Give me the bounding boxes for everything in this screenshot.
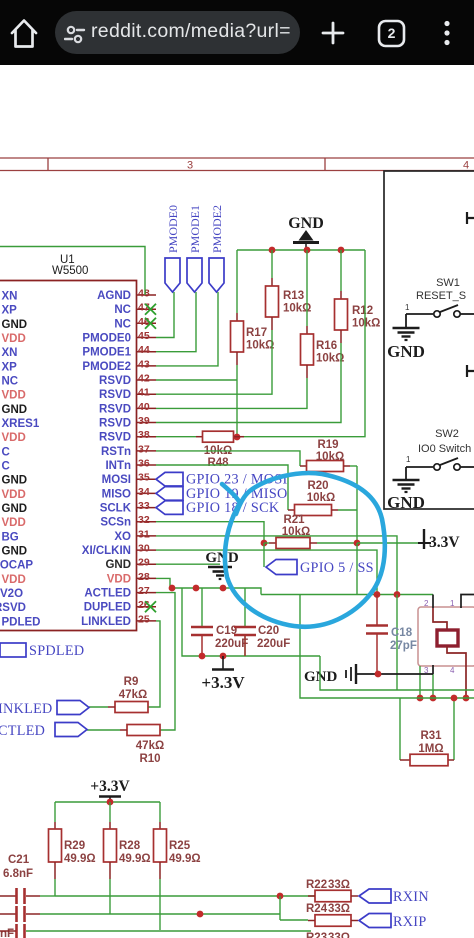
svg-text:36: 36 <box>138 458 150 470</box>
svg-text:C19: C19 <box>216 625 237 637</box>
resistor R16 10kΩ <box>301 334 345 365</box>
wire pin27 ACTLED <box>156 593 175 730</box>
switch area box <box>384 171 474 509</box>
resistor R28 49.9Ohm <box>104 829 151 865</box>
+3.3V power mid <box>201 656 245 692</box>
svg-text:39: 39 <box>138 415 150 427</box>
junction wire jog <box>169 585 176 592</box>
ground SW2 <box>387 467 425 512</box>
wire crystal feed <box>261 594 433 596</box>
wire pin37 RSTn to R19 <box>156 451 300 466</box>
svg-text:RXIP: RXIP <box>393 914 427 930</box>
pin 26 DUPLED <box>84 599 156 614</box>
pin 38 RSVD <box>99 429 156 444</box>
pin 41 RSVD <box>99 387 156 402</box>
port box SPDLED <box>0 643 84 659</box>
svg-text:GND: GND <box>205 550 239 566</box>
wire RXIN rail <box>55 895 315 897</box>
wire R29 top <box>54 802 56 822</box>
svg-text:NC: NC <box>114 304 131 316</box>
svg-text:R16: R16 <box>316 340 337 352</box>
pin 48 AGND <box>97 288 156 303</box>
capacitor C21 6.8nF <box>0 854 55 904</box>
pin 33 SCLK <box>100 500 156 514</box>
svg-text:PMODE0: PMODE0 <box>166 205 180 253</box>
junction C18/ground <box>375 671 382 678</box>
wire rail 698 <box>300 656 474 698</box>
svg-text:RSTn: RSTn <box>101 446 131 458</box>
svg-text:RSVD: RSVD <box>0 602 26 614</box>
wire R25 top <box>159 802 161 822</box>
svg-text:48: 48 <box>138 288 150 300</box>
svg-text:PMODE0: PMODE0 <box>82 333 131 345</box>
svg-text:MISO: MISO <box>102 488 131 500</box>
junction RXIN rail <box>277 893 284 900</box>
svg-text:33Ω: 33Ω <box>328 879 350 891</box>
wire R28 bottom <box>109 862 111 879</box>
svg-text:1: 1 <box>406 455 411 464</box>
svg-text:10kΩ: 10kΩ <box>316 451 344 463</box>
svg-text:1: 1 <box>450 599 455 608</box>
svg-text:RESET_S: RESET_S <box>416 290 466 302</box>
svg-text:3.3V: 3.3V <box>429 534 460 551</box>
resistor R13 10kΩ <box>266 286 312 317</box>
wire pin28 VDD to caps <box>156 578 320 656</box>
svg-text:XP: XP <box>2 305 18 317</box>
svg-text:RSVD: RSVD <box>99 389 131 401</box>
capacitor C22 6.8nF <box>0 906 110 922</box>
svg-text:43: 43 <box>138 358 150 370</box>
wire pin32 SCSn <box>156 522 264 543</box>
resistor R29 49.9Ohm <box>49 829 96 865</box>
svg-text:44: 44 <box>138 344 150 356</box>
svg-text:29: 29 <box>138 557 150 569</box>
svg-text:V2O: V2O <box>0 588 23 600</box>
port arrow LINKLED <box>57 701 89 715</box>
svg-text:31: 31 <box>138 528 150 540</box>
pin 25 LINKLED <box>81 613 156 628</box>
svg-text:220uF: 220uF <box>215 638 248 650</box>
junction bus-R12 <box>338 247 345 254</box>
wire R20 right <box>332 509 339 511</box>
svg-text:MOSI: MOSI <box>102 474 131 486</box>
svg-text:27: 27 <box>138 585 150 597</box>
site controls icon <box>68 27 74 33</box>
pin 28 VDD <box>107 571 156 586</box>
pin 31 XO <box>114 528 156 543</box>
junction XO <box>394 591 401 598</box>
wire RXIP rail <box>110 913 280 915</box>
svg-text:XN: XN <box>2 291 18 303</box>
resistor R19 10kOhm <box>307 439 345 472</box>
svg-text:RSVD: RSVD <box>99 432 131 444</box>
capacitor C18 27pF <box>366 595 417 675</box>
resistor R48 10kOhm <box>156 431 244 469</box>
svg-text:VDD: VDD <box>2 574 26 586</box>
svg-text:SCLK: SCLK <box>100 503 132 515</box>
svg-text:10kΩ: 10kΩ <box>307 492 335 504</box>
svg-text:R48: R48 <box>207 457 229 469</box>
pin 36 INTn <box>105 458 156 473</box>
svg-text:W5500: W5500 <box>52 265 88 277</box>
svg-text:R9: R9 <box>124 676 139 688</box>
junction rail/+3.3V <box>354 540 361 547</box>
wire R25 bottom <box>159 862 161 879</box>
pin 35 MOSI <box>102 472 156 487</box>
sheet border <box>0 158 474 172</box>
resistor R9 47kOhm <box>89 676 148 713</box>
svg-text:R10: R10 <box>139 753 160 765</box>
svg-text:XRES1: XRES1 <box>2 418 40 430</box>
no-connect X pin 47 <box>145 304 156 315</box>
wire pullup rail vertical <box>356 466 358 543</box>
svg-text:47kΩ: 47kΩ <box>119 689 147 701</box>
svg-text:R24: R24 <box>306 903 328 915</box>
svg-text:GND: GND <box>2 503 28 515</box>
junction 3.3V rail <box>107 799 114 806</box>
wire crystal pin4 down <box>465 665 467 698</box>
wire AGND rail to pin 48 <box>0 247 145 296</box>
home icon <box>12 21 36 47</box>
wire R19 right <box>344 465 351 467</box>
crystal Y1 <box>424 595 466 676</box>
svg-text:LINKLED: LINKLED <box>81 616 131 628</box>
svg-text:SCSn: SCSn <box>100 517 131 529</box>
svg-text:VDD: VDD <box>2 489 26 501</box>
svg-text:GND: GND <box>2 475 28 487</box>
wire R29 bottom <box>54 862 56 879</box>
wire bus to R13 <box>271 250 273 278</box>
svg-text:RXIN: RXIN <box>393 889 429 905</box>
svg-text:25: 25 <box>138 613 150 625</box>
svg-text:VDD: VDD <box>2 517 26 529</box>
svg-text:37: 37 <box>138 443 150 455</box>
svg-text:49.9Ω: 49.9Ω <box>119 853 151 865</box>
wire bus right leg to pin38 row <box>233 250 365 437</box>
junction R17/pin38 wire <box>234 434 241 441</box>
port arrow RXIN <box>359 889 391 903</box>
wire gnd rail 690 <box>320 656 474 690</box>
svg-text:RSVD: RSVD <box>99 418 131 430</box>
junction bus-R16 <box>304 247 311 254</box>
svg-text:R25: R25 <box>169 840 191 852</box>
resistor R12 10kΩ <box>335 299 381 330</box>
svg-text:R17: R17 <box>246 327 267 339</box>
pin 30 XI/CLKIN <box>82 543 156 558</box>
svg-text:1: 1 <box>405 303 410 312</box>
svg-text:GND: GND <box>288 215 324 232</box>
svg-text:SW2: SW2 <box>435 428 459 440</box>
svg-text:33: 33 <box>138 500 150 512</box>
junction bus-R13 <box>269 247 276 254</box>
svg-text:R23: R23 <box>306 932 327 938</box>
pin 42 RSVD <box>99 373 156 388</box>
svg-text:49.9Ω: 49.9Ω <box>64 853 96 865</box>
wire pin30 XI/CLKIN <box>156 550 377 594</box>
no-connect X pin 26 <box>145 601 156 612</box>
svg-text:C20: C20 <box>258 625 279 637</box>
svg-text:42: 42 <box>138 373 150 385</box>
pin 32 SCSn <box>100 514 156 529</box>
wire rail down <box>356 543 358 595</box>
capacitor C20 220uF <box>234 625 290 656</box>
ground sideways GND <box>304 664 433 685</box>
junction case/rail <box>430 695 437 702</box>
junction XI/C18 <box>374 591 381 598</box>
svg-text:R29: R29 <box>64 840 85 852</box>
svg-text:NC: NC <box>114 318 131 330</box>
wire crystal top-right pin <box>461 595 474 609</box>
junction rail <box>197 911 204 918</box>
svg-text:GND: GND <box>2 546 28 558</box>
svg-text:GND: GND <box>387 342 425 361</box>
svg-text:C21: C21 <box>8 854 30 866</box>
wire 3.3V rail <box>55 801 160 803</box>
svg-text:40: 40 <box>138 401 150 413</box>
svg-text:R19: R19 <box>317 439 338 451</box>
svg-text:NC: NC <box>2 376 19 388</box>
svg-text:TOCAP: TOCAP <box>0 560 33 572</box>
ground pin29 <box>156 550 239 579</box>
svg-text:XI/CLKIN: XI/CLKIN <box>82 545 131 557</box>
wire XO down to gnd rail <box>396 595 398 691</box>
svg-text:SW1: SW1 <box>436 277 460 289</box>
wire crystal case ground <box>432 665 434 674</box>
pin 44 PMODE1 <box>82 344 156 359</box>
capacitor C19 220uF <box>191 625 248 656</box>
svg-text:DUPLED: DUPLED <box>84 602 131 614</box>
svg-text:AGND: AGND <box>97 290 131 302</box>
ground SW1 <box>387 314 425 361</box>
port arrow ACTLED <box>55 723 87 737</box>
port arrow GPIO 18 / SCK <box>156 501 183 515</box>
svg-text:VDD: VDD <box>107 573 131 585</box>
power stub right edge 2 <box>467 365 474 377</box>
pin 39 RSVD <box>99 415 156 430</box>
resistor R24 33Ohm <box>306 903 358 926</box>
svg-text:1MΩ: 1MΩ <box>418 743 443 755</box>
svg-text:4: 4 <box>450 666 455 675</box>
wire vertical 280 <box>279 896 281 920</box>
wire pin44 to PMODE1 <box>156 292 196 352</box>
resistor R20 10kOhm <box>295 480 336 516</box>
svg-text:ACTLED: ACTLED <box>84 588 131 600</box>
pin 45 PMODE0 <box>82 330 156 345</box>
junction SCSn/R21 <box>261 540 268 547</box>
power stub right edge 1 <box>467 212 474 224</box>
svg-text:41: 41 <box>138 387 150 399</box>
svg-text:XO: XO <box>114 531 131 543</box>
svg-text:45: 45 <box>138 330 150 342</box>
svg-text:10kΩ: 10kΩ <box>246 340 274 352</box>
svg-text:PMODE2: PMODE2 <box>82 361 131 373</box>
svg-text:R22: R22 <box>306 879 327 891</box>
port arrow GPIO 5 / SS <box>264 543 297 575</box>
wire bus to R16 <box>306 250 308 326</box>
port arrow GPIO 23 / MOSI <box>156 472 183 486</box>
capacitor C23 6.8nF <box>0 924 25 938</box>
wire bus to R17 <box>236 250 238 313</box>
svg-text:3: 3 <box>187 160 193 172</box>
svg-text:GND: GND <box>387 493 425 512</box>
junction crystal/rail <box>463 695 470 702</box>
resistor R17 10kΩ <box>231 321 275 352</box>
svg-text:C18: C18 <box>391 627 413 639</box>
blue annotation circle <box>222 473 385 627</box>
switch SW2 IO0 <box>406 428 474 470</box>
pin 43 PMODE2 <box>82 358 156 373</box>
junction pin3/rail <box>417 695 424 702</box>
svg-text:PMODE1: PMODE1 <box>188 205 202 253</box>
svg-text:INTn: INTn <box>105 460 131 472</box>
wire bus to R12 <box>340 250 342 291</box>
svg-text:CTLED: CTLED <box>0 723 45 739</box>
svg-text:GPIO 5 / SS: GPIO 5 / SS <box>300 560 374 576</box>
pin 37 RSTn <box>101 443 156 458</box>
svg-text:BG: BG <box>2 531 19 543</box>
svg-text:34: 34 <box>138 486 150 498</box>
port arrow PMODE2 <box>209 258 224 292</box>
svg-text:4: 4 <box>463 160 469 172</box>
svg-text:33Ω: 33Ω <box>328 903 350 915</box>
svg-text:GND: GND <box>2 404 28 416</box>
svg-text:PMODE1: PMODE1 <box>82 347 131 359</box>
svg-text:SPDLED: SPDLED <box>29 643 84 659</box>
svg-text:GND: GND <box>2 319 28 331</box>
svg-text:+3.3V: +3.3V <box>201 673 245 692</box>
svg-text:2: 2 <box>388 25 396 41</box>
pin 47 NC <box>114 302 156 317</box>
port arrow GPIO 19 / MISO <box>156 487 183 501</box>
svg-text:R13: R13 <box>283 290 304 302</box>
port arrow PMODE1 <box>187 258 202 292</box>
wire crystal pin3 <box>419 666 421 698</box>
resistor R10 47kOhm <box>87 725 164 766</box>
GND power symbol top <box>288 215 324 250</box>
svg-text:220uF: 220uF <box>257 638 290 650</box>
svg-text:6.8nF: 6.8nF <box>3 868 33 880</box>
port arrow RXIP <box>359 914 391 928</box>
pin 40 RSVD <box>99 401 156 416</box>
svg-text:C: C <box>2 446 10 458</box>
svg-text:28: 28 <box>138 571 150 583</box>
svg-text:10kΩ: 10kΩ <box>316 353 344 365</box>
junction R31 right <box>451 695 458 702</box>
wire pin25 LINKLED <box>148 621 160 707</box>
svg-text:R31: R31 <box>420 730 442 742</box>
menu kebab <box>444 21 449 26</box>
wire R16 to pin40 <box>306 365 308 378</box>
wire GND bus top <box>237 249 365 251</box>
wire R28 top <box>109 802 111 822</box>
wire pin42 <box>156 379 237 381</box>
+3.3V power bottom <box>90 778 130 802</box>
svg-text:C: C <box>2 461 10 473</box>
svg-text:2: 2 <box>424 599 429 608</box>
svg-text:49.9Ω: 49.9Ω <box>169 853 201 865</box>
pin 27 ACTLED <box>84 585 156 600</box>
svg-text:XN: XN <box>2 347 18 359</box>
svg-text:VDD: VDD <box>2 333 26 345</box>
wire pin45 to PMODE0 <box>156 292 174 338</box>
svg-text:INKLED: INKLED <box>0 701 53 717</box>
pin 29 GND <box>105 557 156 572</box>
op chip U1 W5500 box <box>0 254 137 631</box>
svg-text:10kΩ: 10kΩ <box>352 318 380 330</box>
no-connect X pin 46 <box>145 318 156 329</box>
svg-text:35: 35 <box>138 472 150 484</box>
junction cap C20 top <box>220 585 227 592</box>
svg-text:+3.3V: +3.3V <box>90 778 130 795</box>
svg-text:27pF: 27pF <box>390 640 417 652</box>
junction cap C19 top <box>193 585 200 592</box>
svg-text:47kΩ: 47kΩ <box>136 740 164 752</box>
svg-text:33Ω: 33Ω <box>328 932 350 938</box>
svg-text:RSVD: RSVD <box>99 403 131 415</box>
resistor R21 10kOhm <box>264 514 357 549</box>
svg-text:38: 38 <box>138 429 150 441</box>
junction +3.3V stub <box>220 653 227 660</box>
svg-text:R28: R28 <box>119 840 141 852</box>
svg-text:IO0 Switch: IO0 Switch <box>418 443 471 455</box>
wire pin36 INTn to R20 <box>156 465 288 510</box>
wire R13 to pin41 <box>271 317 273 330</box>
svg-text:PDLED: PDLED <box>2 616 41 628</box>
svg-text:R21: R21 <box>283 514 305 526</box>
junction cap C19 bottom <box>199 653 206 660</box>
wire R12 to pin39 <box>340 330 342 343</box>
svg-text:R12: R12 <box>352 305 373 317</box>
port arrow PMODE0 <box>165 258 180 292</box>
svg-text:GND: GND <box>105 559 131 571</box>
svg-text:30: 30 <box>138 543 150 555</box>
wire R23 rail <box>0 930 16 932</box>
crystal module box <box>418 607 474 666</box>
svg-text:VDD: VDD <box>2 432 26 444</box>
resistor R31 1MOhm <box>400 698 454 766</box>
svg-text:GND: GND <box>304 669 338 685</box>
svg-text:nF: nF <box>0 928 14 938</box>
wire pin43 to PMODE2 <box>156 292 218 366</box>
svg-text:XP: XP <box>2 361 18 373</box>
pin 34 MISO <box>102 486 156 501</box>
svg-text:R20: R20 <box>307 480 328 492</box>
resistor R25 49.9Ohm <box>154 829 201 865</box>
tab counter box <box>379 21 404 46</box>
svg-text:VDD: VDD <box>2 390 26 402</box>
resistor R22 33Ohm <box>306 879 358 902</box>
wire pin31 XO <box>156 536 397 595</box>
pin 46 NC <box>114 316 156 331</box>
+3.3V power right <box>357 529 460 551</box>
svg-text:RSVD: RSVD <box>99 375 131 387</box>
svg-text:32: 32 <box>138 514 150 526</box>
switch SW1 RESET <box>405 277 474 317</box>
wire R17 bottom <box>236 352 238 365</box>
svg-text:PMODE2: PMODE2 <box>210 205 224 253</box>
plus icon (new tab) <box>323 23 343 43</box>
